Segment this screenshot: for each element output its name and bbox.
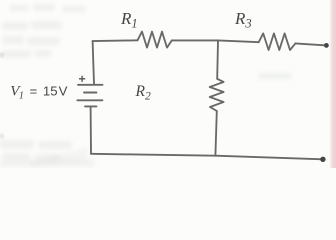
svg-text:15: 15 [43,84,58,99]
svg-text:V: V [59,84,68,99]
wire: R2 branch from top wire down [216,41,219,79]
wire: bottom rail [91,154,323,160]
battery V1 plate long top [78,84,103,86]
battery V1 plate long [77,99,102,101]
faint bleed-through text rows (upper left) [0,4,292,167]
battery V1 plate short bottom [85,105,96,107]
resistor R3 [259,33,296,50]
pink page edge at right [329,0,336,168]
faint shadow left of bottom corner [30,147,88,167]
battery V1 plate short [84,92,96,94]
node B: right terminal dot (bottom) [320,157,325,162]
circuit strokes [77,32,326,160]
wire: left branch top corner down to battery [93,41,94,84]
svg-text:1: 1 [19,90,24,101]
wire: R2 to bottom wire [215,111,216,156]
node A: right terminal dot (top) [324,43,329,48]
wire: top-left corner to R1 [93,39,138,42]
wire: R3 to right terminal [295,43,326,45]
resistor R1 [138,32,172,48]
label V1 = 15 V [10,83,67,101]
plus sign of battery [79,76,85,82]
left edge dark dashes [0,53,4,138]
wire: battery to bottom-left corner [90,106,92,153]
page background [0,0,336,168]
wire: R1 to junction to R3 [172,40,259,42]
resistor R2 [210,79,224,111]
svg-text:=: = [30,83,38,98]
